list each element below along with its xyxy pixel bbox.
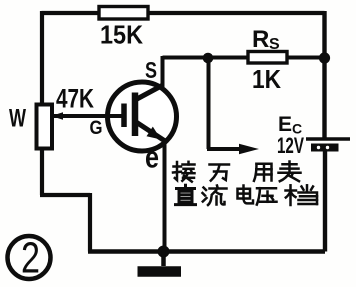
char 压 [257, 188, 277, 204]
svg-text:2: 2 [21, 234, 40, 283]
ground stub [161, 251, 166, 266]
resistor RS body [248, 52, 287, 64]
svg-text:S: S [145, 57, 157, 83]
svg-text:W: W [9, 105, 26, 133]
svg-text:e: e [145, 140, 159, 175]
battery EC short thick negative plate [311, 144, 339, 152]
annotation text line 2: 直流电压档 [176, 185, 318, 205]
transistor Q1 emitter arrow head [147, 127, 162, 140]
svg-text:12V: 12V [277, 133, 304, 158]
battery EC white print dots [317, 146, 320, 149]
ground junction dot [158, 246, 170, 258]
char 流 [203, 186, 227, 206]
svg-text:1K: 1K [252, 64, 281, 94]
svg-text:15K: 15K [100, 20, 143, 50]
wire left side [40, 11, 44, 195]
char 直 [176, 185, 196, 204]
wiper arrow head at potentiometer [51, 112, 63, 120]
transistor Q1 gate bar [121, 104, 127, 128]
transistor Q1 emitter diagonal [136, 122, 167, 142]
resistor 15K body [99, 7, 148, 20]
char 档 [286, 185, 318, 205]
wire emitter lead vertical [163, 139, 167, 252]
wire right side upper [322, 11, 326, 139]
wire top rail [42, 11, 325, 15]
annotation text line 1: 接 万 用 表 [173, 162, 301, 182]
battery EC long positive plate [306, 137, 350, 141]
char 接 [173, 162, 195, 182]
node junction dot left [203, 53, 214, 64]
transistor Q1 channel bar [132, 93, 139, 137]
svg-text:G: G [90, 118, 103, 139]
char 电 [238, 186, 254, 204]
wire gate lead from potentiometer [50, 114, 124, 118]
transistor Q1 source diagonal [136, 85, 163, 100]
wire bottom-left jog vertical [88, 193, 92, 252]
wire S node horizontal [163, 56, 325, 60]
node junction dot right [319, 52, 330, 63]
svg-text:47K: 47K [56, 84, 94, 114]
svg-text:S: S [269, 36, 280, 53]
transistor Q1 circle [108, 82, 177, 151]
potentiometer W body [37, 105, 53, 149]
figure number circled 2 [8, 236, 51, 279]
wire to multimeter (down then right) [207, 55, 244, 149]
svg-text:R: R [252, 26, 269, 53]
wire bottom-left jog horizontal [40, 193, 90, 197]
char 用 [254, 164, 272, 181]
char 万 [210, 165, 230, 181]
wire S lead vertical [161, 56, 165, 87]
multimeter arrow head [239, 144, 259, 154]
ground bar [138, 266, 182, 277]
wire bottom rail [88, 249, 325, 254]
wire right side lower [323, 150, 327, 252]
char 表 [279, 162, 301, 182]
